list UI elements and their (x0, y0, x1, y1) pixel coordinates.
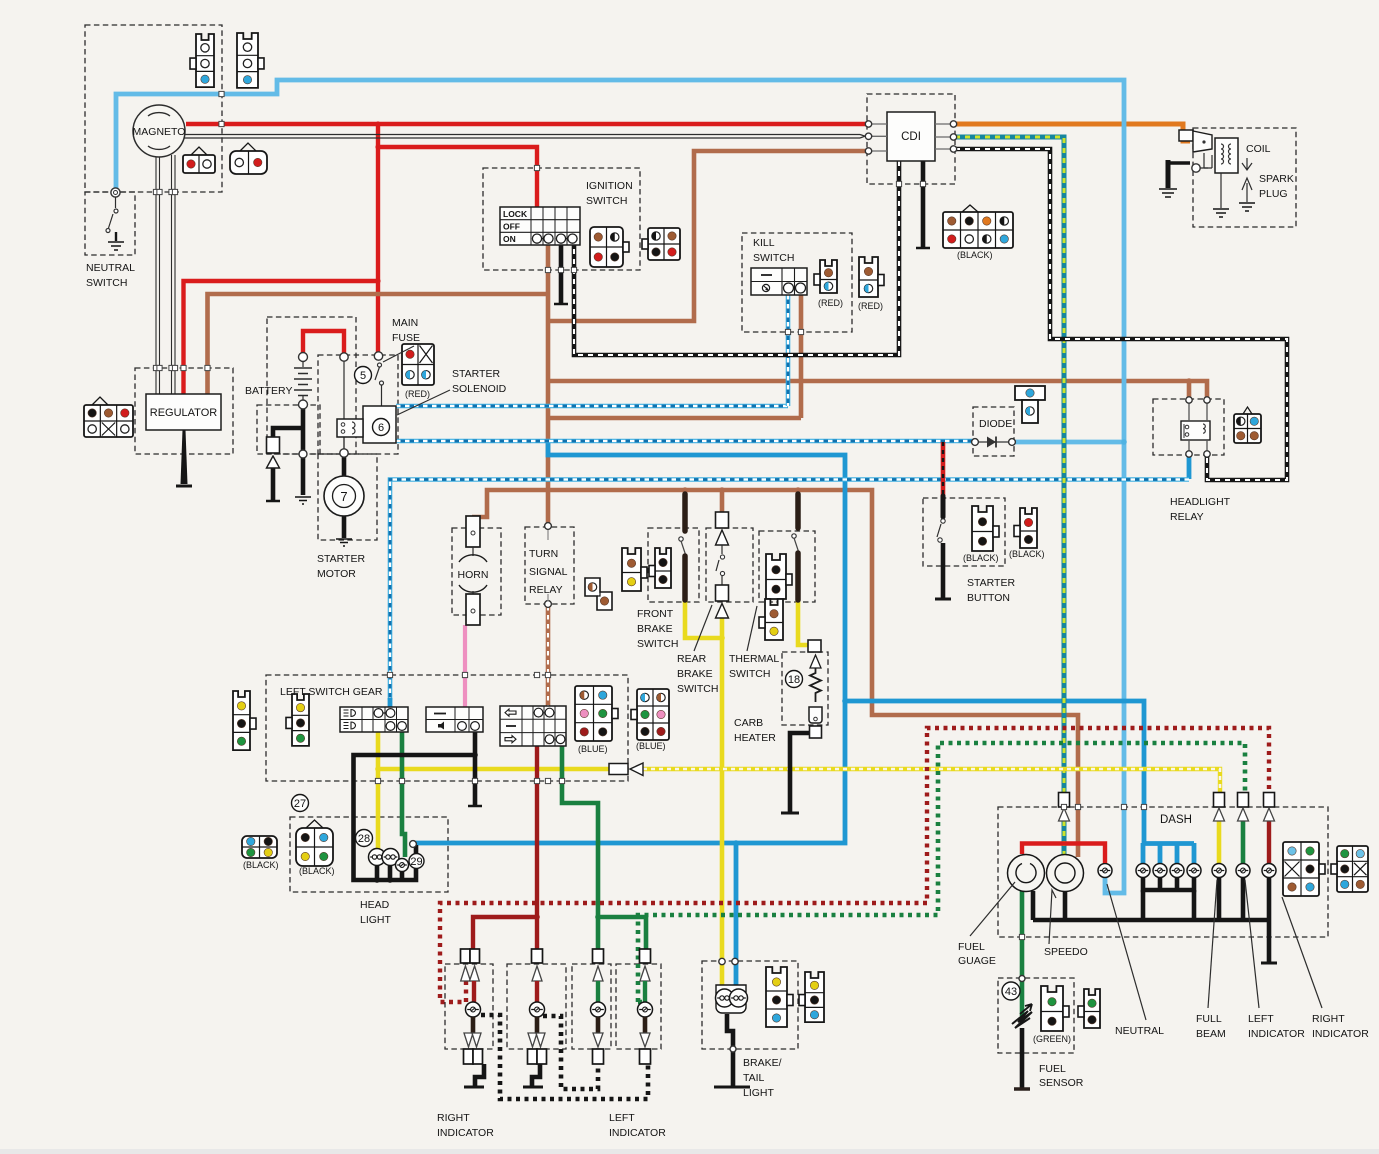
wire black carb heater ground (790, 733, 810, 812)
wire red-black starter button (941, 442, 946, 496)
label right indicator front (437, 1112, 494, 1139)
ground ignition (554, 303, 568, 306)
svg-text:RELAY: RELAY (1170, 511, 1204, 523)
wire green indicator branch (598, 917, 646, 950)
node red junctions (375, 121, 380, 283)
wire orange CDI to coil (955, 124, 1190, 141)
svg-text:SWITCH: SWITCH (86, 277, 127, 289)
svg-text:29: 29 (410, 856, 422, 868)
full beam lamp (1212, 864, 1226, 878)
connector blue 6pin B (631, 689, 669, 740)
callout speedo (1049, 890, 1056, 944)
wire black regulator ground (181, 430, 188, 484)
svg-text:(BLACK): (BLACK) (299, 866, 335, 876)
label speedo (1044, 946, 1088, 958)
callout rear brake switch (694, 605, 712, 651)
wire black battery negative (301, 408, 306, 495)
starter motor box (318, 454, 377, 540)
svg-text:BUTTON: BUTTON (967, 592, 1010, 604)
node brown junctions (682, 378, 1192, 493)
headlight box (290, 817, 448, 892)
svg-text:(BLUE): (BLUE) (578, 744, 608, 754)
speedo (1047, 855, 1084, 892)
right indicator front lamp (461, 949, 483, 1064)
wire brown to regulator (208, 294, 549, 394)
wire black starter button lower (941, 543, 946, 598)
right indicator rear lamp (528, 949, 547, 1064)
wire yellow thermal to carb heater (798, 601, 810, 645)
starter motor (324, 476, 364, 516)
dash entry full beam wire (1214, 793, 1225, 822)
starter solenoid (337, 406, 396, 443)
connector magneto top 2 (237, 33, 264, 88)
svg-text:SPARK: SPARK (1259, 173, 1294, 185)
wire black fusible link lower (271, 468, 276, 500)
svg-text:FULL: FULL (1196, 1013, 1222, 1025)
ground battery (295, 497, 311, 504)
svg-text:FRONT: FRONT (637, 608, 674, 620)
fuel gauge (1008, 855, 1045, 892)
svg-text:LEFT: LEFT (609, 1112, 635, 1124)
left indicator front lamp (638, 949, 653, 1064)
wire black left ind lamp gnd (1241, 877, 1246, 920)
wire brown to CDI (548, 151, 867, 321)
wire green dotted into indicator (638, 1000, 645, 1005)
label brake tail light (743, 1057, 782, 1099)
wire blue lamp drop 3 (1175, 843, 1180, 864)
label fuel sensor (1039, 1063, 1084, 1089)
neutral switch box (85, 192, 135, 255)
svg-text:HEATER: HEATER (734, 732, 776, 744)
label kill switch (753, 237, 794, 264)
wire yellow-teal CDI to dash (955, 137, 1064, 792)
wire black switch to headlight shell (354, 755, 476, 880)
dash lamp 4 (1187, 864, 1201, 878)
wire yellow rear brake to tail (720, 617, 725, 985)
main fuse / solenoid box (318, 355, 398, 454)
svg-text:DIODE: DIODE (979, 418, 1012, 430)
fuel sensor box (998, 978, 1074, 1053)
svg-text:SENSOR: SENSOR (1039, 1077, 1084, 1089)
carb heater (808, 640, 822, 738)
connector starter button 2 (1014, 508, 1037, 548)
svg-text:(RED): (RED) (858, 301, 883, 311)
wire black horn switch down (473, 732, 478, 805)
ground starter button (935, 598, 951, 601)
carb heater box (782, 652, 828, 725)
svg-text:MAIN: MAIN (392, 317, 418, 329)
connector diode blue (0, 0, 1, 1)
front brake switch (679, 494, 686, 600)
wire green dimmer to headlight (402, 732, 405, 857)
label full beam (1196, 1013, 1226, 1040)
svg-text:RELAY: RELAY (529, 584, 563, 596)
wire blue headlight feed (413, 443, 845, 843)
svg-text:TURN: TURN (529, 548, 558, 560)
left indicator rear lamp (591, 949, 606, 1064)
svg-text:SWITCH: SWITCH (677, 683, 718, 695)
svg-text:STARTER: STARTER (967, 577, 1015, 589)
wire blue dash feed (845, 701, 1144, 845)
connector kill red 1 (814, 260, 837, 293)
wire blue lamp drop 4 (1192, 843, 1197, 864)
label ignition switch (586, 180, 633, 207)
svg-text:HORN: HORN (458, 569, 489, 581)
horn box (452, 528, 501, 615)
ground carb heater (781, 812, 799, 815)
wire blue-white dimmer line (390, 480, 1189, 701)
wire black starter motor ground (342, 516, 347, 538)
svg-text:THERMAL: THERMAL (729, 653, 779, 665)
wire red to regulator (184, 281, 379, 394)
headlight relay box (1153, 399, 1224, 455)
junction markers (153, 91, 1146, 939)
label left indicator lamp (1248, 1013, 1305, 1040)
wire black-white CDI to ignition (574, 161, 899, 355)
headlight relay (1181, 397, 1210, 457)
label head light (360, 899, 392, 926)
regulator (146, 394, 221, 430)
dash lamp 1 (1136, 864, 1150, 878)
wire black fuel gauge stub (1031, 891, 1036, 920)
svg-text:6: 6 (378, 422, 384, 434)
wire green dotted indicator loop (638, 743, 1245, 1002)
svg-text:43: 43 (1005, 986, 1017, 998)
headlight number 28 (356, 830, 373, 847)
label front brake switch (637, 608, 678, 650)
wire black CDI ground (921, 161, 926, 247)
node green junction (595, 914, 601, 920)
label black conn CDI (957, 250, 993, 260)
dash entry right indicator wire (1264, 793, 1275, 822)
svg-text:5: 5 (360, 370, 366, 382)
ground horn switch (468, 805, 482, 808)
battery (294, 353, 312, 459)
label starter solenoid (452, 368, 507, 395)
connector fuel green 2 (1078, 989, 1100, 1028)
svg-text:COIL: COIL (1246, 143, 1271, 155)
connector relay 4pin (1234, 414, 1261, 443)
turn signal relay box (525, 527, 574, 604)
callout neutral (1107, 884, 1146, 1020)
left switch gear box (266, 675, 628, 781)
wire brown-white relay to switch (546, 606, 551, 707)
wire brown rear brake stub (720, 490, 725, 513)
fusible link box (257, 405, 320, 454)
svg-text:27: 27 (294, 798, 306, 810)
node blue junctions (733, 439, 1127, 846)
ground right indicator 1 (464, 1064, 484, 1087)
turn signal switch table (500, 706, 566, 746)
label headlight relay (1170, 496, 1231, 523)
wire blue-white solenoid to kill switch (396, 404, 788, 409)
wire black right ind lamp gnd (1267, 877, 1272, 962)
label thermal switch (729, 653, 779, 680)
svg-text:MAGNETO: MAGNETO (133, 126, 186, 138)
svg-text:BATTERY: BATTERY (245, 385, 292, 397)
svg-text:LEFT: LEFT (1248, 1013, 1274, 1025)
battery box (267, 317, 356, 454)
label left switch gear (280, 686, 383, 698)
wire red main vertical (376, 124, 380, 353)
wire black tail light ground (727, 1014, 733, 1086)
label black conn starter 2 (1009, 549, 1045, 559)
svg-text:INDICATOR: INDICATOR (1312, 1028, 1369, 1040)
svg-text:FUEL: FUEL (1039, 1063, 1066, 1075)
connector headlight black A (242, 836, 277, 858)
thermal switch (792, 494, 799, 600)
ground CDI (916, 247, 930, 250)
wire blue relay output stub (1187, 455, 1192, 479)
starter button box (923, 498, 1005, 566)
svg-text:BRAKE: BRAKE (677, 668, 713, 680)
dash entry left indicator wire (1238, 793, 1249, 822)
wire solenoid thin (343, 423, 345, 449)
wire maroon turn switch to indicators (535, 746, 539, 950)
brake tail light box (702, 961, 798, 1049)
svg-text:PLUG: PLUG (1259, 188, 1288, 200)
connector regulator 6pin (84, 405, 133, 437)
starter solenoid number 6 (373, 419, 390, 436)
wire black battery branch (273, 428, 303, 437)
connector magneto red 1 (183, 155, 215, 173)
svg-text:MOTOR: MOTOR (317, 568, 356, 580)
svg-text:SWITCH: SWITCH (586, 195, 627, 207)
label neutral switch (86, 262, 135, 289)
label blue conn A (578, 744, 608, 754)
connector solenoid red (402, 344, 434, 385)
svg-text:SIGNAL: SIGNAL (529, 566, 568, 578)
wire brown to horn (472, 490, 548, 517)
main fuse F1 (340, 352, 384, 457)
label blue conn B (636, 741, 666, 751)
wire brown feed to headlight relay (548, 381, 1207, 399)
ground regulator (176, 485, 192, 488)
thermal switch box (759, 531, 815, 602)
wire yellow dashed to dash (643, 769, 1220, 792)
svg-text:BEAM: BEAM (1196, 1028, 1226, 1040)
main fuse number 5 (355, 367, 372, 384)
wire black dash bus (1033, 918, 1270, 923)
ground fusible link (266, 500, 280, 503)
callout starter solenoid (397, 390, 450, 415)
turn signal relay (545, 523, 552, 608)
wire brown switch feed bus (548, 490, 1078, 857)
label dash (1160, 814, 1192, 826)
regulator box (135, 368, 233, 454)
wire brown kill switch drop (799, 295, 804, 418)
diode D1 (972, 437, 1016, 448)
coil and spark plug (1159, 130, 1255, 217)
wire blue lamp drop 2 (1158, 843, 1163, 864)
magneto M1 (133, 105, 186, 157)
wire maroon indicator branch (473, 917, 537, 950)
svg-text:RIGHT: RIGHT (1312, 1013, 1345, 1025)
ground right indicator 2 (523, 1064, 543, 1087)
svg-text:FUSE: FUSE (392, 332, 420, 344)
wire red to ignition switch (378, 147, 537, 208)
wire blue dimmer end (388, 698, 393, 708)
wire blue-white kill switch drop (786, 295, 791, 406)
wire blue tail light drop (734, 843, 739, 985)
node yellow junctions (375, 635, 725, 772)
svg-text:HEAD: HEAD (360, 899, 390, 911)
coil box (1193, 128, 1296, 227)
svg-text:OFF: OFF (503, 222, 520, 232)
connector front brake 1 (622, 548, 647, 591)
svg-text:(GREEN): (GREEN) (1033, 1034, 1071, 1044)
left indicator lamp (1236, 864, 1250, 878)
label main fuse (392, 317, 420, 344)
ignition switch box (483, 168, 640, 270)
wire blue dash comb (1143, 841, 1194, 846)
headlight number 29 (409, 854, 424, 869)
connector tail light 2 (799, 972, 824, 1022)
svg-text:INDICATOR: INDICATOR (609, 1127, 666, 1139)
label coil (1246, 143, 1271, 155)
svg-text:(RED): (RED) (405, 389, 430, 399)
svg-text:GUAGE: GUAGE (958, 955, 996, 967)
neutral lamp (1098, 864, 1112, 878)
brake tail light bulb (716, 958, 748, 1052)
wire brown relay stub (1187, 381, 1192, 399)
wire black headlight bulb stub 2 (388, 864, 393, 880)
label black conn hl B (299, 866, 335, 876)
label battery (245, 385, 292, 397)
connector ignition 4pin B (642, 228, 680, 260)
magneto enclosure box (85, 25, 222, 192)
callout left indicator (1245, 880, 1259, 1008)
label starter motor (317, 553, 365, 580)
svg-text:REGULATOR: REGULATOR (150, 407, 217, 419)
svg-text:STARTER: STARTER (317, 553, 365, 565)
svg-text:IGNITION: IGNITION (586, 180, 633, 192)
rear brake switch box (706, 528, 753, 602)
label spark plug (1259, 173, 1294, 200)
wire black speedo stub (1063, 891, 1068, 920)
label left indicator front (609, 1112, 666, 1139)
svg-text:LOCK: LOCK (503, 209, 528, 219)
label starter button (967, 577, 1015, 604)
svg-text:28: 28 (358, 833, 370, 845)
ground tail light (714, 1086, 750, 1089)
ignition switch (500, 207, 580, 245)
left indicator 2 box (616, 964, 661, 1049)
svg-text:KILL: KILL (753, 237, 775, 249)
label red conn solenoid (405, 389, 430, 399)
ground fuel sensor (1014, 1087, 1030, 1091)
svg-text:LEFT SWITCH GEAR: LEFT SWITCH GEAR (280, 686, 383, 698)
svg-text:(BLACK): (BLACK) (963, 553, 999, 563)
svg-text:INDICATOR: INDICATOR (1248, 1028, 1305, 1040)
svg-text:BRAKE: BRAKE (637, 623, 673, 635)
wire brown trunk from ignition (546, 245, 551, 524)
diode box (973, 407, 1014, 456)
horn switch table (426, 707, 483, 732)
rear brake switch (716, 512, 729, 618)
label carb heater (734, 717, 776, 744)
ground starter motor (336, 539, 352, 546)
label black conn hl A (243, 860, 279, 870)
svg-text:INDICATOR: INDICATOR (437, 1127, 494, 1139)
wire green left indicator lamp drop (1241, 821, 1246, 864)
svg-text:ON: ON (503, 234, 516, 244)
CDI box (dashed) (867, 94, 955, 184)
wire red fuel gauge to neutral lamp (1022, 844, 1105, 864)
svg-text:(BLACK): (BLACK) (243, 860, 279, 870)
left indicator 1 box (572, 964, 611, 1049)
svg-text:SOLENOID: SOLENOID (452, 383, 507, 395)
svg-text:SPEEDO: SPEEDO (1044, 946, 1088, 958)
label green conn (1033, 1034, 1071, 1044)
callout main fuse (383, 346, 414, 362)
svg-text:LIGHT: LIGHT (360, 914, 392, 926)
svg-text:LIGHT: LIGHT (743, 1087, 775, 1099)
svg-text:(BLACK): (BLACK) (957, 250, 993, 260)
callout fuel guage (970, 882, 1015, 936)
connector dash 6pin B (1331, 846, 1368, 892)
connector thermal 1 (766, 554, 792, 599)
wire magneto coil leads (156, 155, 175, 394)
wire magneto twin leads (184, 135, 865, 139)
wire black headlight bulb stub 1 (375, 864, 380, 880)
svg-text:(RED): (RED) (818, 298, 843, 308)
headlight bulbs (369, 841, 417, 872)
svg-text:REAR: REAR (677, 653, 707, 665)
svg-text:CDI: CDI (901, 131, 921, 143)
wire black lamp comb drop a (1158, 877, 1163, 890)
svg-text:(BLACK): (BLACK) (1009, 549, 1045, 559)
connector kill red 2 (859, 257, 884, 297)
connector blue 6pin A (575, 686, 618, 741)
wire blue-white solenoid to diode (396, 439, 975, 444)
front brake switch box (648, 528, 699, 602)
svg-text:NEUTRAL: NEUTRAL (1115, 1025, 1164, 1037)
wire brown to kill switch link (548, 416, 801, 421)
dash box (998, 807, 1328, 937)
connector magneto top 1 (190, 34, 214, 87)
wire black fuel sensor ground (1020, 1028, 1025, 1088)
dash lamp 3 (1170, 864, 1184, 878)
callout thermal switch (747, 606, 757, 651)
wire red battery loop (303, 331, 344, 353)
connector fuel green 1 (1041, 986, 1069, 1031)
svg-text:18: 18 (788, 674, 800, 686)
connector front brake 2 (649, 548, 671, 588)
wire black ignition ground (559, 245, 564, 303)
connector diode blue body (1015, 386, 1045, 423)
neutral switch (106, 188, 124, 250)
svg-text:SWITCH: SWITCH (729, 668, 770, 680)
svg-text:7: 7 (340, 489, 347, 504)
connector dash 6pin A (1283, 842, 1325, 896)
wire black dotted link outer (481, 1015, 648, 1099)
wire pink horn to switch (463, 625, 467, 708)
label rear brake switch (677, 653, 718, 695)
right indicator lamp (1262, 864, 1276, 878)
label neutral lamp (1115, 1025, 1164, 1037)
svg-text:HEADLIGHT: HEADLIGHT (1170, 496, 1231, 508)
wire black lamp comb (1143, 877, 1194, 890)
connector tail light 1 (766, 967, 793, 1027)
wire black dotted link inner (543, 1016, 598, 1089)
svg-text:FUEL: FUEL (958, 941, 985, 953)
wire yellow dimmer to beam line (378, 767, 609, 772)
starter button (937, 496, 945, 542)
wire black-white CDI to relay (955, 149, 1287, 480)
dash lamp 2 (1153, 864, 1167, 878)
wire yellow dimmer to headlight (376, 732, 381, 849)
